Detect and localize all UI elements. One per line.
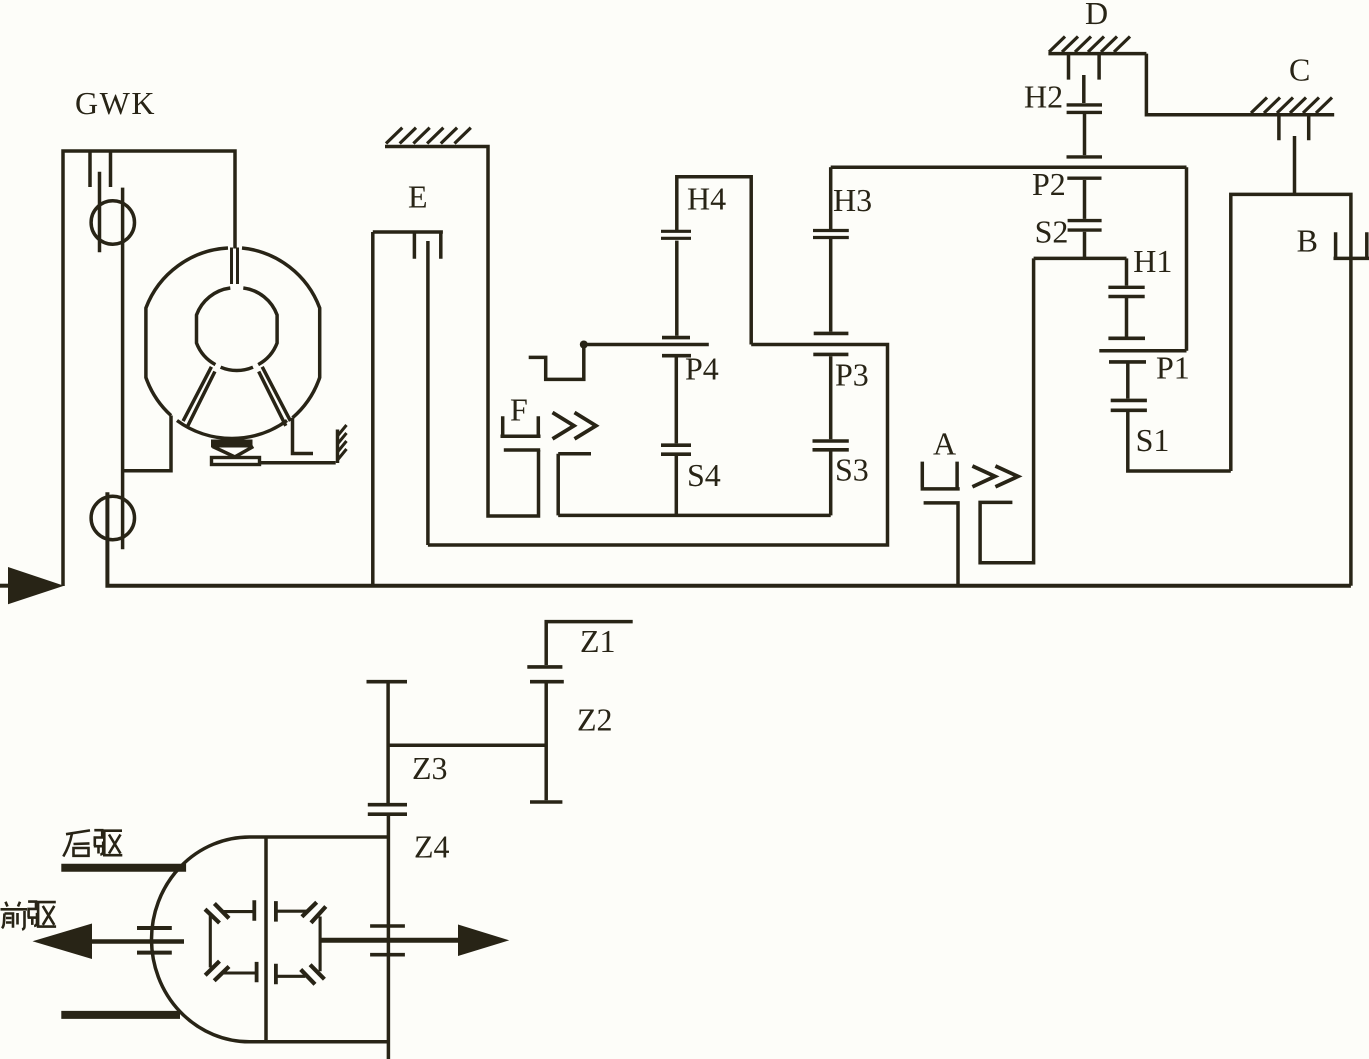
svg-text:H4: H4	[687, 181, 726, 217]
svg-text:Z4: Z4	[414, 829, 450, 865]
svg-text:H2: H2	[1024, 78, 1063, 114]
svg-text:H1: H1	[1133, 243, 1172, 279]
svg-text:F: F	[510, 392, 528, 428]
svg-text:C: C	[1289, 52, 1310, 88]
svg-text:S2: S2	[1035, 214, 1069, 250]
svg-text:S4: S4	[687, 457, 721, 493]
svg-text:D: D	[1085, 0, 1108, 31]
svg-text:P3: P3	[835, 356, 869, 392]
svg-text:P2: P2	[1032, 166, 1066, 202]
svg-text:S1: S1	[1136, 422, 1170, 458]
svg-text:S3: S3	[835, 452, 869, 488]
svg-text:B: B	[1297, 223, 1318, 259]
svg-text:E: E	[408, 179, 428, 215]
svg-text:Z2: Z2	[577, 702, 613, 738]
svg-text:H3: H3	[833, 182, 872, 218]
svg-text:P4: P4	[685, 351, 719, 387]
svg-text:Z3: Z3	[412, 750, 448, 786]
svg-text:Z1: Z1	[580, 623, 616, 659]
svg-text:GWK: GWK	[75, 85, 156, 121]
svg-text:A: A	[933, 426, 956, 462]
svg-text:P1: P1	[1156, 350, 1190, 386]
